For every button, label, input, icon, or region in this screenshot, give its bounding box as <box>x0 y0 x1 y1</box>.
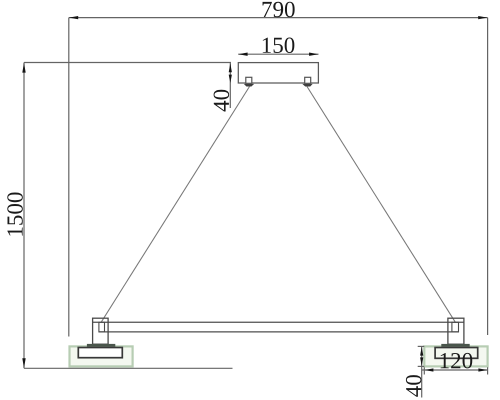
dimension 40 top text <box>214 90 230 112</box>
lamp head left inner <box>99 322 105 332</box>
lamp head left outer <box>93 318 109 344</box>
dimension 120 line <box>422 369 488 371</box>
extension line 1500 top <box>24 62 231 64</box>
dimension 40 bottom down arrow <box>420 357 423 366</box>
dimension 40 bottom bottom extension <box>418 365 425 367</box>
dimension 150 line <box>238 53 318 55</box>
dimension 790 text <box>263 2 295 18</box>
dimension 40 bottom top extension <box>418 345 425 347</box>
dimension 1500 text <box>7 193 23 236</box>
dimension 40 top line <box>229 63 231 109</box>
bar bottom edge <box>99 331 459 333</box>
hook flange left <box>244 84 254 87</box>
extension line 790 right <box>487 18 489 335</box>
dimension 40 top down arrow <box>229 75 232 83</box>
dimension 150 text <box>263 38 295 54</box>
dimension 790 right arrow <box>478 16 487 19</box>
foot left <box>87 344 115 347</box>
dimension 790 left arrow <box>69 16 78 19</box>
dimension 790 line <box>69 17 488 19</box>
dimension 40 bottom up arrow <box>420 347 423 356</box>
extension line 1500 bottom <box>24 367 233 369</box>
shade right black rect <box>435 348 478 359</box>
hook square right <box>305 77 311 83</box>
bar top edge <box>93 321 465 323</box>
lamp head right outer <box>448 318 464 344</box>
dimension 120 extension right <box>487 367 489 374</box>
dimension 1500 line <box>23 63 25 369</box>
dimension 120 extension left <box>423 367 425 374</box>
dimension 120 right arrow <box>478 368 487 371</box>
dimension 120 text <box>441 353 473 369</box>
dimension 40 bottom line <box>421 346 423 397</box>
hook square left <box>246 77 252 83</box>
extension line 790 left <box>68 18 70 337</box>
suspension wire left <box>101 87 250 323</box>
dimension 40 bottom text <box>406 375 422 397</box>
shade left black rect <box>78 348 122 358</box>
lamp head right inner <box>452 322 459 332</box>
ceiling plate <box>238 63 318 83</box>
dimension 150 right arrow <box>309 53 318 56</box>
dimension 120 left arrow <box>424 368 433 371</box>
dimension 1500 bottom arrow <box>22 358 25 368</box>
dimension 1500 top arrow <box>22 63 25 73</box>
hook flange right <box>302 84 312 87</box>
shade left green outline <box>70 346 133 366</box>
dimension 40 top up arrow <box>229 63 232 72</box>
dimension 150 left arrow <box>238 53 247 56</box>
suspension wire right <box>307 87 456 323</box>
foot right <box>441 344 469 347</box>
shade right green outline <box>424 346 487 366</box>
